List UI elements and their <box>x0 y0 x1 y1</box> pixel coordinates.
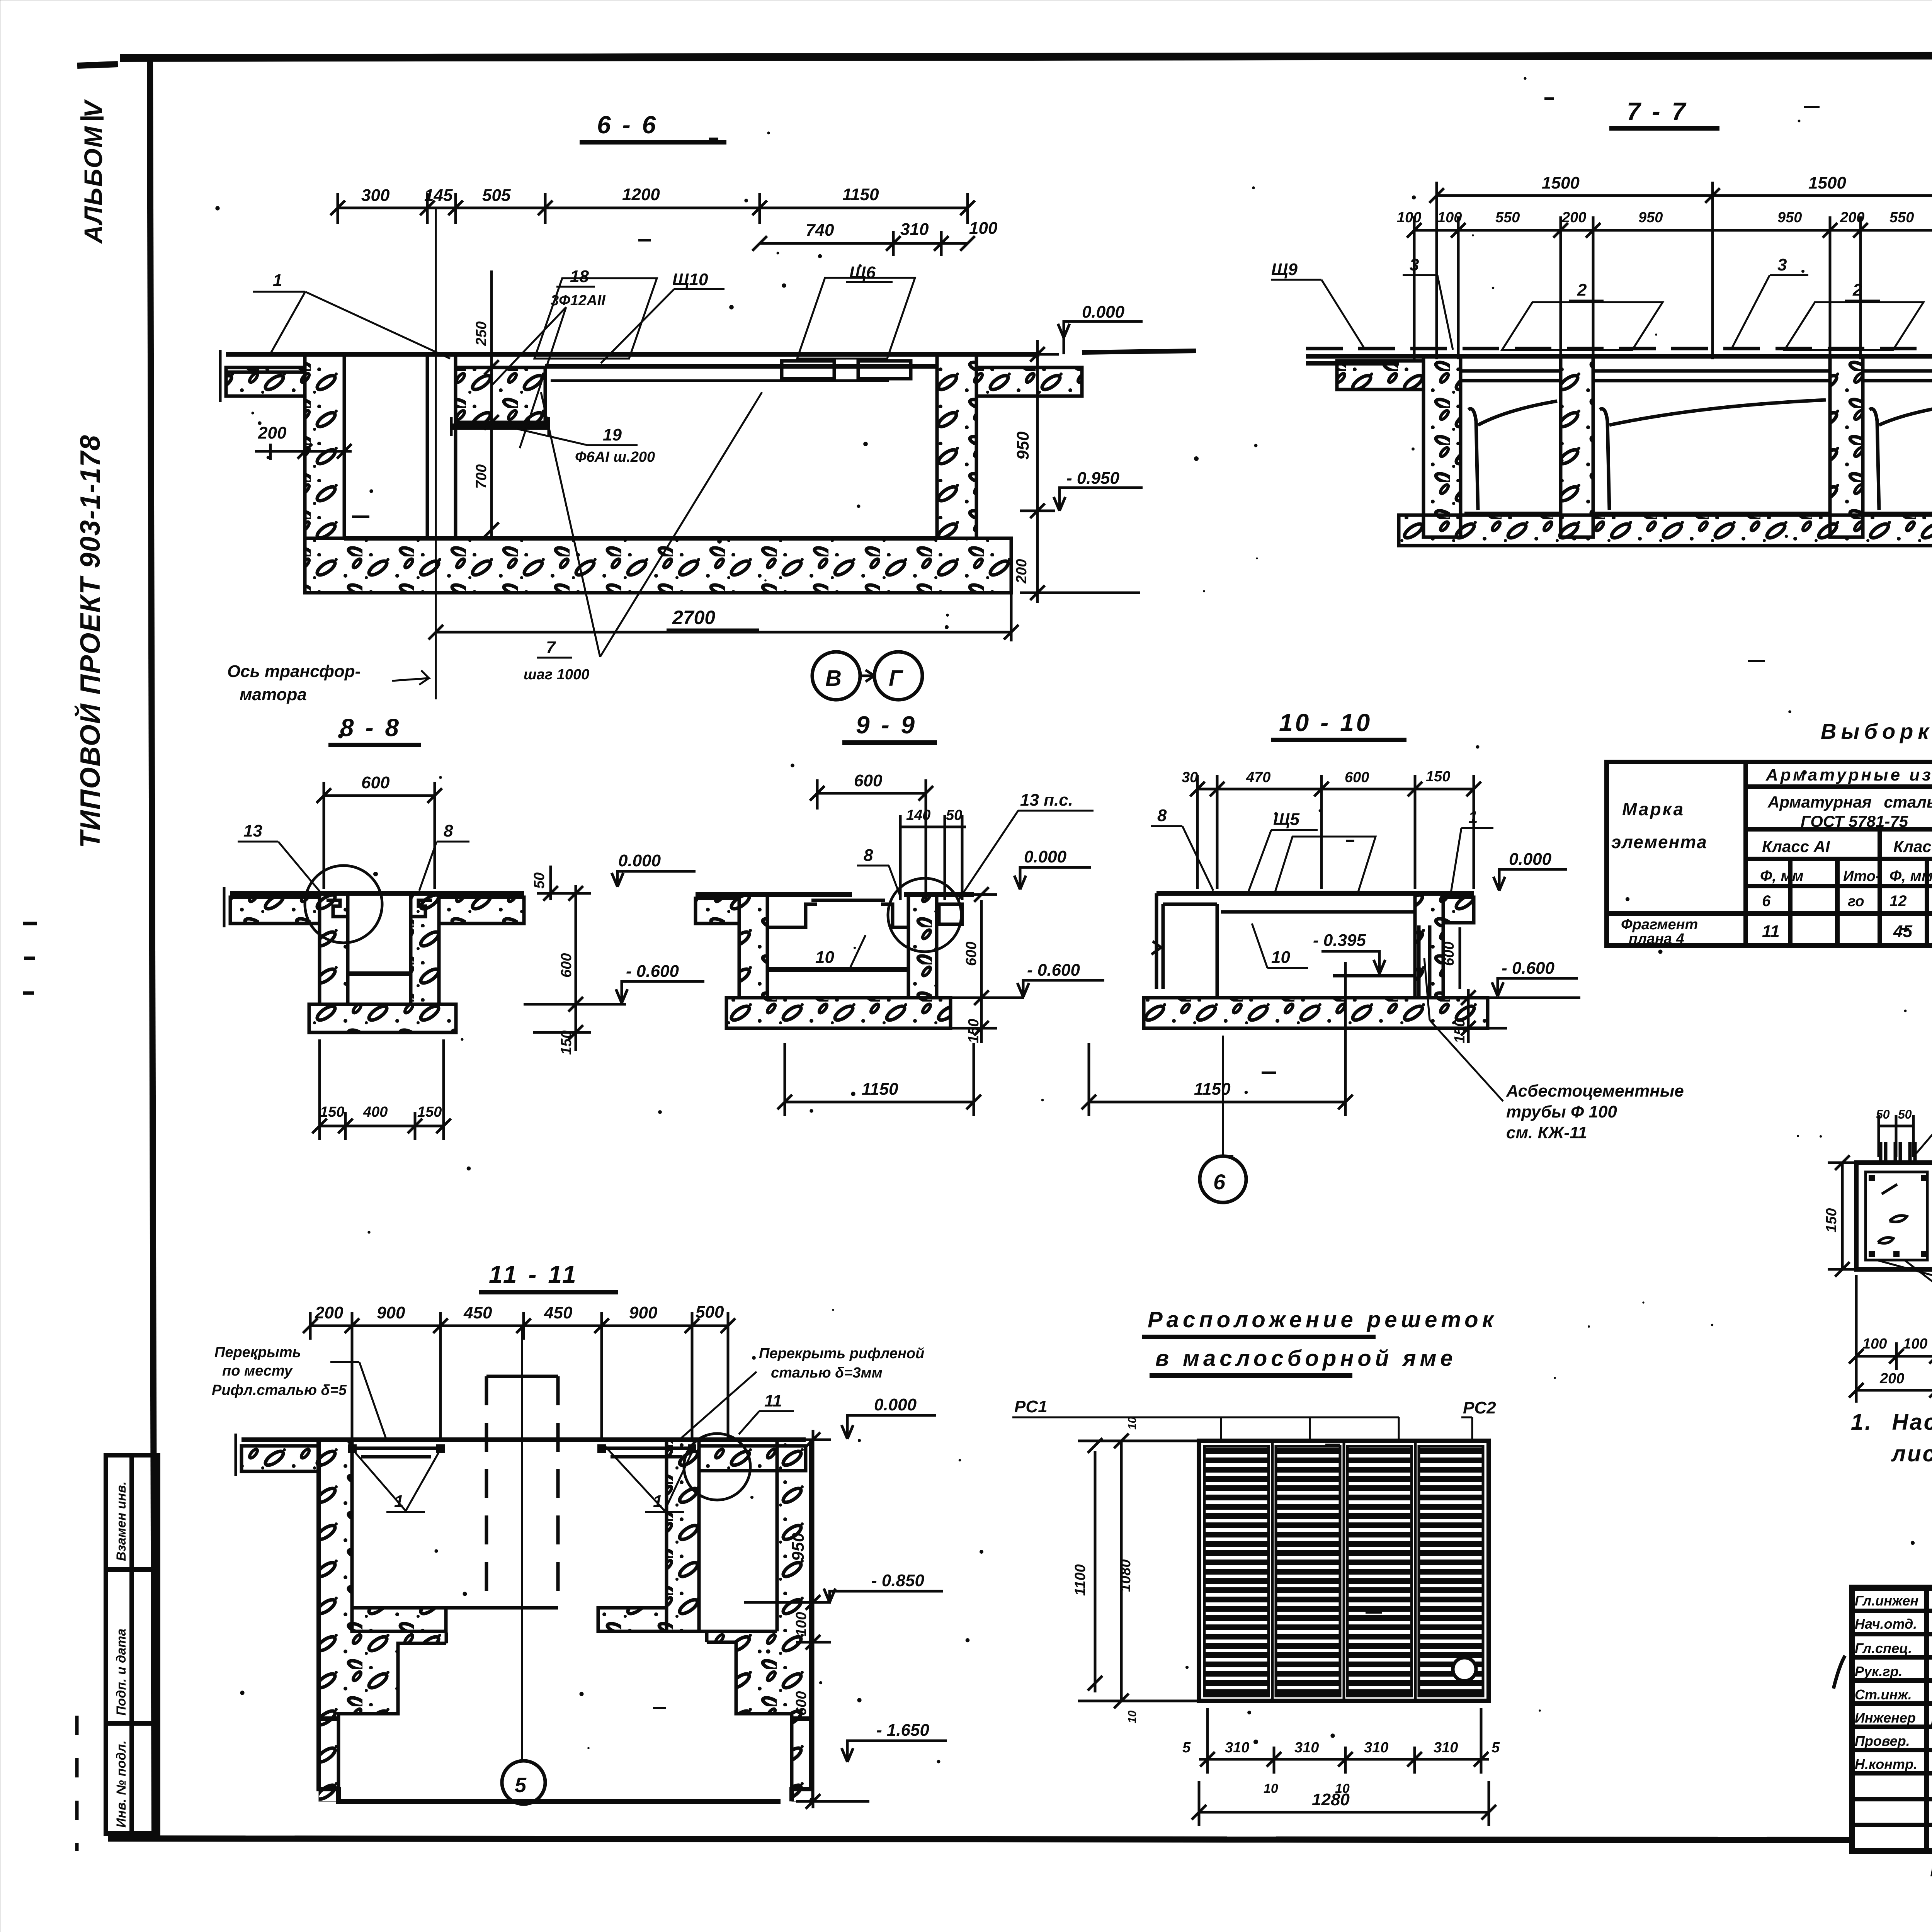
svg-text:6: 6 <box>1762 893 1771 910</box>
svg-text:30: 30 <box>1182 769 1198 786</box>
detail circle <box>305 866 382 943</box>
svg-text:- 1.650: - 1.650 <box>876 1721 930 1740</box>
svg-text:200: 200 <box>1561 209 1586 226</box>
floor <box>309 1004 456 1032</box>
dashed line bottom-left margin <box>75 1716 79 1851</box>
svg-text:1150: 1150 <box>862 1080 898 1099</box>
left wall with steps <box>319 1440 781 1801</box>
marker circle 6 <box>1222 1036 1224 1156</box>
bottom frame line <box>108 1838 1853 1840</box>
pit interiors: top lip lines + bent bars <box>1461 371 1932 381</box>
channel glyphs at pit top <box>327 900 348 917</box>
dims 140 50 <box>900 815 966 900</box>
main title block outer <box>1852 1588 1932 1851</box>
walls <box>739 895 767 998</box>
svg-text:950: 950 <box>789 1532 808 1561</box>
left stub slab <box>1306 361 1399 366</box>
svg-text:11 - 11: 11 - 11 <box>489 1260 578 1288</box>
svg-text:470: 470 <box>1246 769 1270 786</box>
svg-text:50: 50 <box>1898 1107 1912 1121</box>
left frame vertical <box>150 58 155 1839</box>
svg-text:600: 600 <box>793 1691 810 1716</box>
transformer axis line <box>435 208 437 699</box>
dim line 1500/1500 <box>1429 182 1932 359</box>
parallelogram grate symbols <box>1502 302 1663 350</box>
staff rows <box>1852 1609 1932 1613</box>
svg-text:13: 13 <box>243 821 262 840</box>
slash mark left of staff table <box>1833 1656 1845 1689</box>
svg-text:550: 550 <box>1889 209 1914 226</box>
left vertical dims <box>1078 1434 1199 1708</box>
svg-text:Расположение решеток: Расположение решеток <box>1148 1307 1497 1332</box>
svg-text:Ф, мм: Ф, мм <box>1889 867 1932 884</box>
pit floor slab <box>305 538 1011 593</box>
svg-text:Класс АI: Класс АI <box>1762 837 1830 855</box>
svg-text:100: 100 <box>1903 1336 1927 1352</box>
left slab <box>230 897 320 923</box>
svg-text:Провер.: Провер. <box>1855 1733 1910 1749</box>
svg-text:18: 18 <box>570 267 589 286</box>
ground line <box>1156 891 1474 896</box>
bottom dim 1150 <box>1082 962 1353 1116</box>
svg-text:шаг 1000: шаг 1000 <box>524 667 589 683</box>
left exterior slab <box>241 1446 319 1471</box>
svg-text:1: 1 <box>1468 808 1478 827</box>
svg-text:АЛЬБОМ V: АЛЬБОМ V <box>79 99 107 244</box>
panels <box>1204 1443 1483 1699</box>
svg-text:1150: 1150 <box>842 185 879 204</box>
staff labels <box>1855 1592 1932 1772</box>
svg-text:Копиров:: Копиров: <box>1930 1859 1932 1881</box>
dim 2700 <box>429 591 1019 641</box>
top-left tick mark <box>77 64 118 66</box>
svg-text:матора: матора <box>240 685 307 704</box>
svg-text:13 п.с.: 13 п.с. <box>1020 791 1073 810</box>
svg-text:2700: 2700 <box>672 607 715 628</box>
svg-text:150: 150 <box>417 1104 442 1120</box>
top dimension line <box>330 193 975 224</box>
svg-text:Перекрыть рифленой: Перекрыть рифленой <box>759 1345 924 1362</box>
svg-text:1500: 1500 <box>1808 173 1846 192</box>
svg-text:8: 8 <box>864 846 873 865</box>
svg-text:1280: 1280 <box>1312 1790 1350 1809</box>
svg-text:1: 1 <box>273 271 282 290</box>
parallelogram grate symbol right <box>797 278 915 359</box>
floor slab <box>1399 515 1932 546</box>
svg-text:Н.контр.: Н.контр. <box>1855 1756 1917 1772</box>
svg-text:10: 10 <box>1264 1781 1278 1796</box>
svg-text:900: 900 <box>629 1303 658 1322</box>
svg-text:145: 145 <box>424 186 453 205</box>
svg-text:140: 140 <box>906 807 930 823</box>
slab lip <box>1221 910 1414 914</box>
svg-text:900: 900 <box>377 1303 405 1322</box>
svg-text:50: 50 <box>531 872 548 889</box>
interior blob marks <box>1878 1184 1907 1243</box>
svg-text:10: 10 <box>1271 948 1290 967</box>
svg-text:Фрагмент: Фрагмент <box>1621 917 1698 933</box>
svg-text:600: 600 <box>1345 769 1369 786</box>
svg-text:1200: 1200 <box>622 185 660 204</box>
svg-text:- 0.600: - 0.600 <box>1027 961 1080 980</box>
left slab <box>696 898 739 923</box>
svg-text:Щ9: Щ9 <box>1271 260 1298 279</box>
svg-text:6 - 6: 6 - 6 <box>597 111 658 139</box>
svg-text:100: 100 <box>1437 209 1462 226</box>
svg-text:200: 200 <box>258 423 287 442</box>
right pit lid <box>602 1447 692 1450</box>
corner rebar dots <box>1869 1175 1875 1181</box>
ground double line <box>241 1437 806 1442</box>
small margin dashes left <box>23 922 37 925</box>
svg-text:трубы Ф 100: трубы Ф 100 <box>1506 1102 1617 1121</box>
ground line <box>696 892 852 897</box>
svg-text:2: 2 <box>1577 281 1587 299</box>
svg-text:740: 740 <box>806 221 834 240</box>
svg-text:10: 10 <box>815 948 834 967</box>
svg-text:100: 100 <box>793 1612 810 1636</box>
svg-text:310: 310 <box>1364 1740 1388 1756</box>
top dims 30 470 600 150 <box>1190 775 1481 889</box>
svg-text:200: 200 <box>1840 209 1864 226</box>
ground line <box>230 891 524 896</box>
svg-text:3: 3 <box>1410 255 1419 274</box>
svg-text:1. Настоящий лист см. совм: 1. Настоящий лист см. совместно с <box>1851 1410 1932 1435</box>
svg-text:ТИПОВОЙ ПРОЕКТ 903-1-178: ТИПОВОЙ ПРОЕКТ 903-1-178 <box>74 434 106 848</box>
svg-text:- 0.850: - 0.850 <box>871 1571 925 1590</box>
svg-text:в маслосборной яме: в маслосборной яме <box>1155 1346 1457 1371</box>
second dim line 740/310/100 <box>752 231 975 256</box>
grating box <box>1199 1441 1489 1701</box>
bottom dims 100 100 / 200 <box>1849 1275 1932 1403</box>
svg-text:150: 150 <box>320 1104 344 1120</box>
left pit floor band <box>352 1608 446 1631</box>
dims 50 50 <box>1879 1115 1913 1157</box>
svg-text:200: 200 <box>315 1303 344 1322</box>
svg-text:Гл.инжен: Гл.инжен <box>1855 1593 1918 1609</box>
svg-text:5: 5 <box>1182 1740 1191 1756</box>
svg-text:0.000: 0.000 <box>1509 850 1552 869</box>
column section box <box>1856 1163 1932 1269</box>
top frame line <box>120 55 1932 58</box>
svg-text:Арматурные изделия: Арматурные изделия <box>1765 765 1932 784</box>
table2 data row <box>1621 915 1932 948</box>
svg-text:600: 600 <box>963 942 980 966</box>
bent bars in pits <box>1468 400 1932 510</box>
central axis <box>521 1326 523 1759</box>
svg-text:Ф, мм: Ф, мм <box>1760 867 1804 884</box>
right vertical dim <box>744 1430 869 1809</box>
dim line 100/100/550/200/950/950/200/550 <box>1407 216 1932 359</box>
svg-text:РС2: РС2 <box>1463 1398 1496 1417</box>
lintel block <box>456 367 545 422</box>
floor <box>1144 998 1488 1028</box>
bottom dim 1150 <box>777 1043 981 1116</box>
svg-text:600: 600 <box>1441 942 1457 966</box>
svg-text:2: 2 <box>1852 281 1862 299</box>
svg-text:10: 10 <box>1126 1710 1139 1723</box>
svg-text:В: В <box>825 666 842 691</box>
svg-text:- 0.600: - 0.600 <box>1502 959 1555 978</box>
svg-text:7: 7 <box>546 638 556 657</box>
svg-text:Взамен инв.: Взамен инв. <box>114 1481 129 1561</box>
svg-text:310: 310 <box>1434 1740 1458 1756</box>
svg-text:950: 950 <box>1638 209 1663 226</box>
svg-text:3: 3 <box>1777 255 1787 274</box>
svg-text:150: 150 <box>1823 1208 1840 1233</box>
svg-text:Ст.инж.: Ст.инж. <box>1855 1687 1912 1702</box>
svg-text:Инженер: Инженер <box>1855 1710 1916 1726</box>
pipe <box>1417 925 1421 996</box>
floor <box>726 998 951 1028</box>
svg-text:Щ6: Щ6 <box>849 263 876 282</box>
svg-text:РС1: РС1 <box>1014 1397 1048 1416</box>
svg-text:Инв. № подл.: Инв. № подл. <box>114 1740 129 1828</box>
svg-text:50: 50 <box>1876 1107 1890 1121</box>
ground line 0.000 <box>226 352 1039 357</box>
svg-text:по месту: по месту <box>222 1363 293 1379</box>
walls <box>1423 356 1461 537</box>
svg-text:8: 8 <box>444 821 453 840</box>
svg-text:1500: 1500 <box>1542 173 1580 192</box>
svg-text:0.000: 0.000 <box>618 851 661 870</box>
walls <box>320 893 348 1004</box>
svg-text:Марка: Марка <box>1622 799 1685 819</box>
top dim line <box>303 1312 735 1439</box>
right outer wall with steps <box>792 1440 811 1801</box>
bottom dims <box>1199 1708 1489 1774</box>
trapezoid channel at top <box>767 904 908 927</box>
svg-text:310: 310 <box>1294 1740 1319 1756</box>
stamp boxes bottom-left <box>106 1455 158 1833</box>
svg-text:Рук.гр.: Рук.гр. <box>1855 1663 1903 1679</box>
rebar stubs on top <box>1881 1142 1915 1163</box>
svg-text:- 0.950: - 0.950 <box>1066 469 1120 488</box>
inner chamber verticals <box>426 354 429 538</box>
svg-text:500: 500 <box>696 1303 724 1321</box>
svg-text:го: го <box>1848 893 1864 910</box>
svg-text:сталью δ=3мм: сталью δ=3мм <box>771 1365 883 1381</box>
svg-text:1100: 1100 <box>1072 1564 1088 1596</box>
detail circle <box>888 878 961 952</box>
svg-text:400: 400 <box>363 1104 388 1120</box>
left pit lid <box>352 1447 440 1450</box>
left wall lines <box>1155 893 1158 989</box>
staff table columns <box>1924 1588 1929 1851</box>
svg-text:6: 6 <box>1213 1170 1226 1194</box>
svg-text:ГОСТ 5781-75: ГОСТ 5781-75 <box>1801 812 1908 830</box>
svg-text:Асбестоцементные: Асбестоцементные <box>1506 1082 1684 1100</box>
drain circle in panel 4 <box>1453 1658 1476 1681</box>
left exterior slab <box>226 367 305 396</box>
svg-text:200: 200 <box>1879 1371 1904 1387</box>
svg-text:600: 600 <box>361 773 390 792</box>
svg-text:1080: 1080 <box>1117 1559 1134 1592</box>
svg-text:элемента: элемента <box>1611 832 1708 852</box>
svg-text:см. КЖ-11: см. КЖ-11 <box>1506 1123 1587 1142</box>
svg-text:Рифл.сталью δ=5: Рифл.сталью δ=5 <box>212 1382 347 1398</box>
svg-text:550: 550 <box>1495 209 1520 226</box>
svg-text:Выборка стали на один элемент,: Выборка стали на один элемент, кг <box>1821 719 1932 743</box>
svg-text:Класс АII: Класс АII <box>1893 837 1932 855</box>
svg-text:450: 450 <box>544 1303 573 1322</box>
grate seat notches <box>782 361 834 379</box>
svg-text:Арматурная сталь: Арматурная сталь <box>1767 793 1932 811</box>
svg-text:- 0.395: - 0.395 <box>1313 931 1366 950</box>
right inner wall <box>667 1440 699 1631</box>
svg-text:600: 600 <box>558 953 575 978</box>
svg-text:Перекрыть: Перекрыть <box>214 1344 301 1361</box>
svg-text:700: 700 <box>473 464 490 489</box>
svg-text:950: 950 <box>1014 431 1032 460</box>
svg-text:250: 250 <box>473 321 490 346</box>
right wall <box>937 354 976 538</box>
svg-text:45: 45 <box>1893 922 1912 941</box>
svg-text:0.000: 0.000 <box>874 1395 917 1414</box>
svg-text:12: 12 <box>1889 893 1907 910</box>
svg-text:150: 150 <box>1426 769 1450 785</box>
svg-text:100: 100 <box>969 219 998 238</box>
ground dashed line <box>1306 347 1932 350</box>
svg-text:505: 505 <box>482 186 511 205</box>
svg-text:50: 50 <box>946 807 962 823</box>
parallelogram grate symbol left <box>534 278 657 359</box>
svg-text:Гл.спец.: Гл.спец. <box>1855 1640 1912 1656</box>
horizontal header rules <box>1746 784 1932 789</box>
svg-text:Подп. и дата: Подп. и дата <box>114 1629 129 1716</box>
left wall <box>305 354 344 538</box>
marker circle 5 <box>502 1761 545 1804</box>
svg-text:Г: Г <box>889 666 903 691</box>
detail circle <box>684 1434 750 1500</box>
svg-text:Нач.отд.: Нач.отд. <box>1855 1616 1917 1632</box>
svg-text:100: 100 <box>1862 1336 1887 1352</box>
central pedestal dashed <box>486 1375 558 1378</box>
svg-text:10: 10 <box>1126 1417 1139 1430</box>
svg-text:- 0.600: - 0.600 <box>626 962 679 981</box>
svg-text:310: 310 <box>1225 1740 1249 1756</box>
svg-text:950: 950 <box>1777 209 1802 226</box>
bottom dims 150 400 150 <box>312 1039 451 1140</box>
marker circles В Г <box>812 652 860 700</box>
svg-text:Щ5: Щ5 <box>1273 810 1300 829</box>
svg-text:плана 4: плана 4 <box>1629 931 1684 947</box>
svg-text:11: 11 <box>764 1391 782 1410</box>
svg-text:11: 11 <box>1762 922 1780 941</box>
dim 600 <box>316 782 442 889</box>
svg-text:0.000: 0.000 <box>1024 847 1067 866</box>
svg-text:450: 450 <box>463 1303 492 1322</box>
right slab <box>439 897 524 923</box>
svg-text:300: 300 <box>361 186 390 205</box>
svg-text:0.000: 0.000 <box>1082 303 1125 321</box>
right wall <box>1415 893 1443 998</box>
svg-text:310: 310 <box>900 220 929 239</box>
svg-text:3Ф12АII: 3Ф12АII <box>551 293 606 309</box>
svg-text:8: 8 <box>1157 806 1167 825</box>
chamber2 floor line and cover slab <box>699 1630 777 1633</box>
svg-text:150: 150 <box>558 1031 575 1055</box>
drain chute rect <box>939 904 962 924</box>
svg-text:19: 19 <box>603 425 622 444</box>
svg-text:листами КЖ-14, КЖС-15.: листами КЖ-14, КЖС-15. <box>1891 1441 1932 1466</box>
svg-text:7 - 7: 7 - 7 <box>1627 97 1688 125</box>
right vertical dim <box>1020 340 1140 603</box>
right exterior slab <box>976 367 1082 396</box>
svg-text:8 - 8: 8 - 8 <box>340 714 401 742</box>
svg-text:9 - 9: 9 - 9 <box>856 711 917 739</box>
svg-text:Ф6АI ш.200: Ф6АI ш.200 <box>575 449 655 465</box>
right pit floor band <box>598 1608 667 1631</box>
channel top double lines <box>545 364 937 369</box>
svg-text:5: 5 <box>1492 1740 1500 1756</box>
svg-text:200: 200 <box>1014 559 1030 584</box>
svg-text:100: 100 <box>1397 209 1421 226</box>
svg-text:600: 600 <box>854 771 883 790</box>
left mass concrete fill <box>319 1440 446 1801</box>
dim 600 <box>810 779 933 900</box>
svg-text:1150: 1150 <box>1194 1080 1231 1099</box>
svg-text:Ито-: Ито- <box>1843 868 1880 884</box>
svg-text:Щ10: Щ10 <box>672 270 708 289</box>
svg-text:5: 5 <box>515 1774 527 1797</box>
svg-text:10 - 10: 10 - 10 <box>1279 709 1372 736</box>
svg-text:Ось трансфор-: Ось трансфор- <box>227 662 361 681</box>
